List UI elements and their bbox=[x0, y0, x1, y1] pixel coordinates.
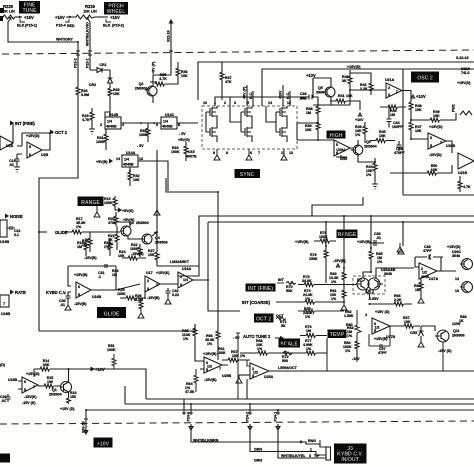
svg-text:3: 3 bbox=[147, 287, 149, 291]
svg-text:2N3906: 2N3906 bbox=[452, 334, 465, 338]
ground pin 9 bbox=[214, 149, 220, 160]
svg-text:100K: 100K bbox=[107, 348, 116, 352]
svg-text:3: 3 bbox=[100, 123, 102, 127]
svg-text:100K: 100K bbox=[217, 351, 226, 355]
svg-text:6: 6 bbox=[430, 136, 432, 140]
wire bus stubs bbox=[312, 197, 363, 216]
svg-text:TEMP: TEMP bbox=[330, 332, 345, 338]
svg-text:GRN: GRN bbox=[254, 448, 262, 452]
svg-text:1M: 1M bbox=[390, 113, 395, 117]
connector P24-2 bbox=[248, 404, 252, 415]
svg-text:-15V(B): -15V(B) bbox=[74, 302, 87, 306]
svg-text:9: 9 bbox=[213, 151, 215, 155]
svg-text:4.7K: 4.7K bbox=[463, 185, 471, 189]
ground under C32 bbox=[165, 296, 171, 304]
wire Q2 collector to top rail bbox=[153, 75, 160, 103]
svg-text:N.C.: N.C. bbox=[249, 92, 253, 99]
svg-text:.01: .01 bbox=[376, 236, 381, 240]
ground pin 11 bbox=[281, 149, 287, 160]
svg-text:+5V (P): +5V (P) bbox=[152, 61, 156, 74]
svg-text:14: 14 bbox=[455, 277, 459, 281]
op-amp U20A bbox=[334, 140, 350, 156]
svg-text:HIGH: HIGH bbox=[330, 133, 343, 139]
connector P24-6 bbox=[182, 399, 186, 415]
svg-text:5: 5 bbox=[374, 329, 376, 333]
bus wire bottom C bbox=[86, 409, 474, 411]
label box PITCH WHEEL bbox=[104, 2, 128, 15]
svg-text:10: 10 bbox=[203, 101, 207, 105]
wire glide junction bbox=[39, 231, 47, 233]
label box RANGE (glide) bbox=[78, 197, 104, 207]
svg-text:-15V(D): -15V(D) bbox=[429, 153, 442, 157]
svg-text:.001: .001 bbox=[299, 97, 306, 101]
svg-text:2: 2 bbox=[180, 275, 182, 279]
svg-text:+10V: +10V bbox=[306, 73, 316, 78]
svg-text:LM324/5KT: LM324/5KT bbox=[170, 260, 190, 264]
svg-text:OCT 2: OCT 2 bbox=[256, 317, 271, 323]
svg-text:100K: 100K bbox=[171, 150, 180, 154]
svg-text:1M: 1M bbox=[77, 245, 82, 249]
svg-text:1: 1 bbox=[310, 448, 312, 452]
dashed outline U26A/B pair bbox=[353, 276, 385, 294]
wire bus risers to int network bbox=[326, 216, 371, 268]
svg-text:+15V(D): +15V(D) bbox=[447, 245, 461, 249]
svg-text:10K: 10K bbox=[133, 178, 140, 182]
svg-text:7: 7 bbox=[440, 141, 442, 145]
wire U21A output bbox=[402, 91, 411, 103]
transistor U26C b bbox=[462, 282, 473, 293]
svg-text:INT: INT bbox=[278, 278, 285, 282]
svg-text:U1B: U1B bbox=[6, 144, 14, 148]
wire pot R228 to +15V bbox=[16, 16, 22, 18]
ground under R44 bbox=[372, 181, 378, 189]
svg-text:1%: 1% bbox=[76, 225, 82, 229]
svg-text:R229: R229 bbox=[85, 4, 96, 9]
svg-text:4.7K: 4.7K bbox=[159, 77, 167, 81]
svg-text:.01: .01 bbox=[9, 163, 14, 167]
svg-text:NOISE: NOISE bbox=[10, 214, 23, 219]
MOSFET U15b bbox=[206, 124, 217, 142]
svg-text:1: 1 bbox=[156, 283, 158, 287]
svg-text:7: 7 bbox=[33, 385, 35, 389]
ground top core bbox=[398, 249, 404, 254]
svg-text:S22-16: S22-16 bbox=[167, 30, 171, 42]
svg-text:4049B: 4049B bbox=[106, 125, 117, 129]
svg-text:L5594/OCT: L5594/OCT bbox=[278, 366, 298, 370]
wire jack line RNG bbox=[191, 430, 320, 447]
svg-text:100K: 100K bbox=[319, 235, 328, 239]
op-amp U21B bbox=[458, 153, 474, 169]
MOSFET U15a bbox=[206, 106, 217, 120]
svg-text:3: 3 bbox=[388, 93, 390, 97]
label box SCALE bbox=[279, 339, 301, 348]
svg-text:14: 14 bbox=[116, 157, 120, 161]
connector pin S22-16 top bbox=[169, 20, 172, 53]
svg-text:150: 150 bbox=[70, 395, 76, 399]
svg-text:R80: R80 bbox=[346, 323, 353, 327]
ground under R29 bbox=[89, 127, 95, 134]
svg-text:+15V: +15V bbox=[110, 15, 120, 20]
svg-text:U2B: U2B bbox=[41, 153, 49, 157]
wire sync into HIGH comparator bbox=[297, 139, 334, 141]
ground near RANGE bbox=[94, 206, 100, 217]
svg-text:1/2: 1/2 bbox=[253, 371, 258, 375]
svg-text:U20B: U20B bbox=[446, 144, 456, 148]
svg-text:+15V: +15V bbox=[55, 15, 65, 20]
svg-text:GLIDE: GLIDE bbox=[55, 230, 68, 235]
op-amp U25A bbox=[250, 363, 269, 379]
svg-text:S.22-16: S.22-16 bbox=[456, 56, 469, 60]
wire to Q11 bbox=[421, 326, 435, 331]
svg-text:INT (FINE): INT (FINE) bbox=[15, 121, 35, 126]
capacitor C39 47PF symbol bbox=[415, 255, 443, 260]
svg-text:47PF: 47PF bbox=[423, 249, 432, 253]
svg-text:RANGE: RANGE bbox=[338, 232, 357, 238]
svg-text:5: 5 bbox=[78, 293, 80, 297]
wire top rail of oscillator section bbox=[198, 62, 474, 100]
svg-text:470PF: 470PF bbox=[394, 151, 405, 155]
svg-text:7: 7 bbox=[3, 302, 5, 306]
label box RANGE (osc) bbox=[337, 230, 358, 239]
label box OSC 2 bbox=[411, 72, 439, 83]
svg-text:2: 2 bbox=[388, 86, 390, 90]
wire OSC block left vertical bbox=[402, 69, 404, 195]
ground under CR5b bbox=[418, 340, 424, 347]
svg-text:100K: 100K bbox=[104, 201, 113, 205]
wire wiper R228 down WHT/GRY bbox=[8, 22, 78, 42]
svg-text:6: 6 bbox=[24, 380, 26, 384]
svg-text:1%: 1% bbox=[331, 280, 337, 284]
svg-text:WHT/BLK/YEL: WHT/BLK/YEL bbox=[281, 454, 306, 458]
svg-text:2N3904: 2N3904 bbox=[364, 145, 377, 149]
svg-text:+15V(D): +15V(D) bbox=[26, 134, 40, 138]
svg-text:+10V: +10V bbox=[97, 441, 110, 447]
label box INT (FINE) bbox=[246, 284, 276, 292]
node INT (FINE) bbox=[10, 122, 13, 125]
svg-text:150K: 150K bbox=[309, 257, 318, 261]
connector P24-1 bbox=[276, 410, 280, 415]
svg-text:+15V (D): +15V (D) bbox=[375, 310, 390, 314]
svg-text:5: 5 bbox=[206, 368, 208, 372]
svg-text:5: 5 bbox=[29, 145, 31, 149]
svg-text:RANGE: RANGE bbox=[81, 200, 100, 206]
svg-text:WHT/BLK/BRN: WHT/BLK/BRN bbox=[193, 439, 219, 443]
svg-text:PW2: PW2 bbox=[452, 104, 456, 112]
svg-text:6: 6 bbox=[78, 285, 80, 289]
node +10V main bbox=[69, 368, 95, 383]
svg-text:BLK: BLK bbox=[103, 24, 111, 28]
wire Q7/Q8 emitters join bbox=[366, 289, 373, 298]
svg-text:0.1: 0.1 bbox=[14, 233, 19, 237]
svg-text:1%: 1% bbox=[240, 354, 246, 358]
svg-text:10K LIN: 10K LIN bbox=[83, 10, 97, 14]
svg-text:-15V(B): -15V(B) bbox=[333, 259, 346, 263]
svg-text:1%: 1% bbox=[347, 334, 353, 338]
svg-text:(P15-1): (P15-1) bbox=[25, 24, 38, 28]
dashed panel boundary top bbox=[2, 50, 474, 54]
svg-text:SYNC: SYNC bbox=[240, 172, 255, 178]
svg-text:U25B: U25B bbox=[222, 374, 232, 378]
svg-text:+10V: +10V bbox=[416, 94, 426, 99]
svg-text:U27A: U27A bbox=[429, 277, 439, 281]
svg-text:3: 3 bbox=[180, 283, 182, 287]
svg-text:P15-4: P15-4 bbox=[56, 24, 66, 28]
svg-text:3046: 3046 bbox=[452, 254, 460, 258]
MOSFET U15d bbox=[241, 124, 252, 142]
svg-text:1.50K: 1.50K bbox=[344, 314, 354, 318]
svg-text:N.C.: N.C. bbox=[286, 92, 290, 99]
svg-text:1M: 1M bbox=[306, 111, 311, 115]
svg-text:RED: RED bbox=[67, 24, 75, 28]
svg-text:+15V(B): +15V(B) bbox=[74, 273, 88, 277]
svg-text:-15V(B): -15V(B) bbox=[84, 256, 97, 260]
svg-text:47.5K: 47.5K bbox=[185, 390, 195, 394]
svg-text:INT (COARSE): INT (COARSE) bbox=[242, 300, 271, 305]
svg-text:-15V(B): -15V(B) bbox=[147, 296, 160, 300]
svg-text:OCT 2: OCT 2 bbox=[55, 130, 68, 135]
svg-text:P23-2: P23-2 bbox=[74, 58, 78, 68]
MOSFET U15c bbox=[241, 106, 252, 120]
svg-text:+15V(D): +15V(D) bbox=[347, 65, 361, 69]
svg-text:7: 7 bbox=[258, 151, 260, 155]
svg-text:3K: 3K bbox=[342, 79, 347, 83]
svg-text:P24-1: P24-1 bbox=[274, 412, 278, 422]
svg-text:P23-1: P23-1 bbox=[86, 58, 90, 68]
svg-text:50K: 50K bbox=[286, 289, 293, 293]
svg-text:4: 4 bbox=[365, 313, 367, 317]
svg-text:U17: U17 bbox=[146, 271, 153, 275]
wire U15 pin risers bbox=[230, 85, 290, 106]
svg-text:10K: 10K bbox=[113, 92, 120, 96]
svg-text:-15V(K): -15V(K) bbox=[24, 395, 37, 399]
wire glide hold node bbox=[156, 150, 158, 252]
svg-text:Q2: Q2 bbox=[139, 82, 144, 86]
wire riser Q11 down bbox=[442, 342, 444, 371]
svg-text:74LS: 74LS bbox=[461, 71, 470, 75]
svg-text:4: 4 bbox=[122, 123, 124, 127]
svg-text:13: 13 bbox=[139, 157, 143, 161]
svg-text:1%: 1% bbox=[207, 342, 213, 346]
bus wire bottom A bbox=[146, 398, 474, 400]
wire gates U15 bbox=[206, 106, 287, 132]
svg-text:4049B: 4049B bbox=[123, 163, 134, 167]
label box FINE TUNE bbox=[19, 1, 40, 14]
svg-text:+15V(D): +15V(D) bbox=[429, 125, 443, 129]
svg-text:Q8: Q8 bbox=[366, 289, 371, 293]
svg-text:GLIDE: GLIDE bbox=[104, 311, 120, 317]
svg-text:10K: 10K bbox=[346, 94, 353, 98]
svg-text:+15V(K): +15V(K) bbox=[156, 271, 170, 275]
svg-text:1M: 1M bbox=[306, 329, 311, 333]
svg-text:5: 5 bbox=[430, 144, 432, 148]
connector arrow P24-1 below bbox=[276, 424, 280, 430]
svg-text:10K: 10K bbox=[148, 253, 155, 257]
svg-text:1/2: 1/2 bbox=[422, 271, 427, 275]
wire feed from bus to Q7Q8 bbox=[403, 222, 456, 271]
svg-text:3.9M: 3.9M bbox=[81, 93, 89, 97]
svg-text:500: 500 bbox=[282, 359, 288, 363]
svg-text:1/4: 1/4 bbox=[107, 120, 112, 124]
svg-text:-15V(B): -15V(B) bbox=[204, 378, 217, 382]
svg-text:+10V: +10V bbox=[279, 90, 283, 99]
svg-text:S33-13: S33-13 bbox=[82, 421, 86, 433]
connector arrow P24-2 below bbox=[248, 424, 252, 430]
svg-text:U14A: U14A bbox=[126, 151, 136, 155]
ground under C36 bbox=[397, 243, 403, 252]
wire R229 right to +15V (P15-2) bbox=[98, 16, 108, 18]
svg-text:P24-2: P24-2 bbox=[246, 412, 250, 422]
wire jack line GRN 1 bbox=[250, 430, 316, 452]
connector pin P23-1 bbox=[88, 51, 92, 55]
ground at U25A bbox=[236, 375, 242, 383]
label box SYNC bbox=[235, 169, 261, 178]
svg-text:6: 6 bbox=[156, 123, 158, 127]
svg-text:5: 5 bbox=[336, 143, 338, 147]
svg-text:1/2: 1/2 bbox=[207, 365, 212, 369]
svg-text:8: 8 bbox=[178, 123, 180, 127]
svg-text:P24-6: P24-6 bbox=[187, 412, 191, 422]
connector edge A (cut-off labels at left edge) bbox=[0, 8, 4, 13]
svg-text:6: 6 bbox=[29, 153, 31, 157]
ground under R61 bbox=[341, 303, 347, 310]
wire wiper R229 down WHT/BLK/VIO bbox=[89, 22, 91, 70]
svg-text:5: 5 bbox=[24, 388, 26, 392]
wire long vertical feed (R26 leg) bbox=[39, 97, 78, 331]
svg-text:0.22: 0.22 bbox=[172, 293, 179, 297]
svg-text:2N3904: 2N3904 bbox=[136, 221, 149, 225]
svg-text:+5V(G): +5V(G) bbox=[178, 138, 190, 142]
bus wire upper bbox=[199, 216, 474, 266]
svg-text:WHT/GRY: WHT/GRY bbox=[56, 38, 73, 42]
power +5V(K) bbox=[115, 208, 121, 210]
svg-text:RATE: RATE bbox=[15, 290, 26, 295]
label box HIGH bbox=[327, 131, 346, 139]
svg-text:1%: 1% bbox=[183, 337, 189, 341]
svg-text:2: 2 bbox=[300, 440, 302, 444]
ground under R68b bbox=[418, 296, 424, 303]
bus wire bottom B bbox=[125, 403, 474, 405]
svg-text:3: 3 bbox=[309, 454, 311, 458]
svg-text:1/2: 1/2 bbox=[375, 326, 380, 330]
svg-text:+5V(B): +5V(B) bbox=[96, 160, 108, 164]
ground pin 6 bbox=[246, 149, 252, 160]
svg-text:13: 13 bbox=[455, 289, 459, 293]
svg-text:+5V (P): +5V (P) bbox=[243, 86, 247, 99]
svg-text:7: 7 bbox=[219, 367, 221, 371]
svg-text:(P15-2): (P15-2) bbox=[112, 24, 125, 28]
label box GLIDE bbox=[97, 307, 126, 318]
svg-text:- 5V: - 5V bbox=[137, 144, 144, 148]
svg-text:1/4: 1/4 bbox=[124, 158, 129, 162]
wire riser x327 TEMP down bbox=[326, 353, 328, 371]
bus wire middle bbox=[208, 221, 474, 223]
svg-text:+10V: +10V bbox=[355, 118, 364, 122]
svg-text:1%: 1% bbox=[377, 260, 383, 264]
svg-text:U21B: U21B bbox=[458, 171, 468, 175]
svg-text:Q5: Q5 bbox=[318, 86, 323, 90]
svg-text:U18B: U18B bbox=[1, 312, 11, 316]
dashed panel boundary bottom bbox=[0, 421, 474, 424]
MOSFET U15f bbox=[276, 124, 287, 142]
connector S33-13 bbox=[84, 410, 88, 434]
svg-text:1: 1 bbox=[396, 90, 398, 94]
label box OCT 2 bbox=[254, 314, 274, 323]
svg-text:100PF: 100PF bbox=[392, 125, 403, 129]
svg-text:1%: 1% bbox=[345, 349, 351, 353]
svg-text:47K: 47K bbox=[225, 80, 232, 84]
IC U19 (left edge box) bbox=[0, 220, 7, 237]
connector arrow P24-6 below bbox=[189, 424, 193, 430]
svg-text:U14C: U14C bbox=[165, 113, 175, 117]
svg-text:10K: 10K bbox=[305, 128, 312, 132]
svg-text:+15V: +15V bbox=[24, 15, 34, 20]
svg-text:-15V (D): -15V (D) bbox=[438, 349, 452, 353]
svg-text:3: 3 bbox=[252, 374, 254, 378]
IC U15 4007B dashed outline bbox=[202, 106, 297, 149]
svg-text:+5V(K): +5V(K) bbox=[122, 209, 134, 213]
svg-text:10K: 10K bbox=[118, 254, 125, 258]
wire U25A feedback risers bbox=[247, 360, 250, 366]
connector edge bottom left bbox=[0, 454, 10, 463]
svg-text:-15V: -15V bbox=[352, 357, 360, 361]
feedback wire U2B bbox=[22, 133, 53, 146]
connector pin P23-2 bbox=[77, 42, 79, 75]
svg-text:1%: 1% bbox=[366, 173, 372, 177]
svg-text:4049B: 4049B bbox=[162, 125, 173, 129]
svg-text:+15V(D): +15V(D) bbox=[26, 372, 40, 376]
wire MOSFET outputs to comparator bbox=[297, 123, 318, 140]
wire auto-tune row bbox=[240, 352, 300, 354]
svg-text:U16A: U16A bbox=[182, 267, 192, 271]
svg-text:2N3904: 2N3904 bbox=[49, 393, 62, 397]
svg-text:-0.55V: -0.55V bbox=[368, 297, 379, 301]
svg-text:.01: .01 bbox=[1, 399, 6, 403]
ground under C14 bbox=[14, 165, 20, 172]
ground under R26 bbox=[138, 311, 144, 318]
svg-text:GRN: GRN bbox=[254, 459, 262, 463]
svg-text:5K: 5K bbox=[281, 324, 286, 328]
svg-text:CR1: CR1 bbox=[99, 63, 106, 67]
wire summing node to U21A bbox=[313, 73, 386, 105]
svg-text:47PF: 47PF bbox=[378, 351, 387, 355]
label box +10V bbox=[94, 438, 113, 448]
IC U18 (left edge box) bbox=[0, 295, 9, 307]
svg-text:1/2W: 1/2W bbox=[452, 322, 461, 326]
svg-text:+15V (D): +15V (D) bbox=[60, 407, 75, 411]
svg-text:IN/OUT: IN/OUT bbox=[341, 457, 359, 463]
svg-text:U20A: U20A bbox=[336, 148, 346, 152]
ground under C30 bbox=[65, 302, 71, 310]
svg-text:BLK: BLK bbox=[17, 24, 25, 28]
wire riser to bus right bbox=[237, 336, 239, 399]
svg-text:1%: 1% bbox=[331, 297, 337, 301]
waveform triangle symbol bbox=[460, 111, 472, 115]
svg-text:+15V(B): +15V(B) bbox=[295, 240, 309, 244]
wire OSC block bottom edge bbox=[403, 194, 474, 196]
svg-text:10K: 10K bbox=[181, 74, 188, 78]
svg-text:4007B: 4007B bbox=[186, 155, 197, 159]
svg-text:U21A: U21A bbox=[385, 78, 395, 82]
svg-text:3046: 3046 bbox=[384, 272, 392, 276]
svg-text:TUNE: TUNE bbox=[22, 8, 37, 14]
svg-text:13: 13 bbox=[289, 151, 293, 155]
svg-text:- 5V: - 5V bbox=[179, 132, 186, 136]
svg-text:OSC 2: OSC 2 bbox=[417, 76, 433, 82]
op-amp U27A bbox=[419, 263, 437, 279]
svg-text:Q1: Q1 bbox=[52, 388, 57, 392]
jack J3 symbol bbox=[326, 447, 331, 460]
svg-text:10K LIN: 10K LIN bbox=[1, 10, 15, 14]
